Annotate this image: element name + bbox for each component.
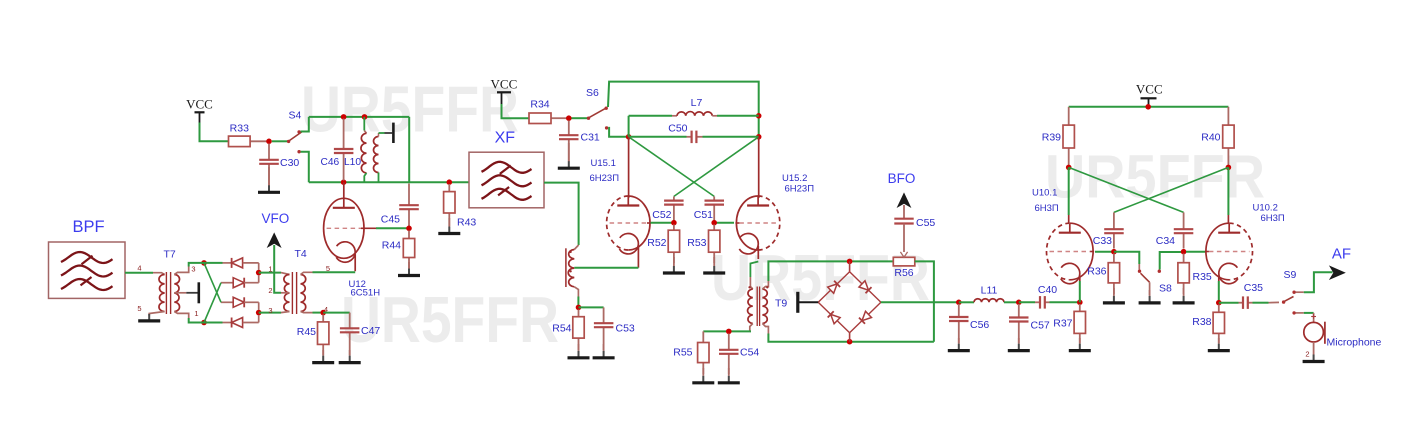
transformer T4 core [292,272,296,314]
label U10.2 type [1261,213,1285,224]
power VCC (right) [1136,82,1163,105]
pin 4 of T4 [324,305,328,314]
wire tank bottom rail [309,181,469,183]
label C46 [321,157,340,168]
svg-text:R54: R54 [552,323,571,335]
diode ring bottom stem [849,333,851,342]
svg-text:U15.1: U15.1 [591,158,616,169]
junction R39/plate U10.1 [1066,165,1072,171]
wire cross-couple R40 to C33 [1114,167,1229,212]
ground C54 [718,368,740,383]
label R44 [382,240,401,252]
resistor R37 [1074,304,1085,343]
output arrow AF [1329,265,1346,280]
label C30 [280,157,299,169]
svg-text:C30: C30 [280,157,299,169]
label R33 [230,123,249,135]
wire XF output down [544,183,579,245]
wire R37 node to U10.1 cathode [1079,281,1081,302]
junction C56/L11 [956,300,962,306]
label U12 type 6C51H [351,288,381,299]
pin 5 of T7 [137,304,141,313]
label R55 [673,347,692,359]
label AF [1332,246,1351,263]
switch S9 [1282,291,1296,315]
wire C34 node to U10.2 grid [1186,251,1205,253]
label C50 [668,123,687,135]
wire R54 node to C53 [579,306,604,308]
watermark UR5FFR middle [711,241,930,314]
capacitor C51 [705,196,725,220]
label L11 [981,285,998,297]
wire quad cross TL to D3 [204,263,221,302]
diode ring D8 (bottom-left edge) [818,302,849,333]
svg-text:C35: C35 [1244,282,1263,294]
label C56 [970,319,989,331]
svg-text:R53: R53 [687,237,706,249]
wire U15.2 cathode to T9 [750,262,758,284]
node diode quad top-left [201,260,207,266]
svg-text:VCC: VCC [1136,82,1163,97]
svg-text:6Н3П: 6Н3П [1261,213,1285,224]
svg-text:2: 2 [268,286,272,295]
label T4 [295,248,307,260]
svg-text:R55: R55 [673,347,692,359]
svg-text:3: 3 [268,306,272,315]
ground R37 [1069,338,1091,351]
label S9 [1284,269,1297,281]
resistor R33 [229,136,267,147]
svg-text:R36: R36 [1087,266,1106,278]
svg-text:BFO: BFO [888,171,916,186]
ground C56 [948,338,970,351]
label XF [495,130,516,147]
svg-text:1: 1 [268,264,272,273]
junction R34/C31/S6 [566,115,572,121]
label R53 [687,237,706,249]
label C53 [616,323,635,335]
svg-text:6Н3П: 6Н3П [1035,203,1059,214]
resistor R38 [1213,305,1224,344]
pin 5 of T4 [326,264,330,273]
junction L7/C50 right node [756,134,762,140]
label R45 [297,326,316,338]
wire U15.1 plate [628,137,630,198]
label VFO [262,211,290,226]
label T7 [164,249,176,261]
resistor R43 [444,184,455,226]
label C57 [1031,320,1050,332]
resistor R36 [1108,254,1119,295]
wire U10.1 grid to C33 node [1095,251,1112,253]
wire tank right vertical [408,117,410,182]
wire VCC3 rail [1069,106,1229,108]
svg-text:C33: C33 [1093,235,1112,247]
svg-text:C52: C52 [652,209,671,221]
label U10.1 type [1035,203,1059,214]
label R43 [457,217,476,229]
svg-text:BPF: BPF [72,218,104,236]
wire S6 lower throw [608,128,626,137]
capacitor C52 [664,196,684,220]
svg-text:C54: C54 [740,347,759,359]
diode D2 (second row) [221,275,259,288]
inductor L7 [629,112,759,137]
resistor R45 [318,315,329,356]
diode ring top stem [849,261,851,271]
svg-text:5: 5 [137,304,141,313]
wire T9 sec top to ring top rail [768,261,893,281]
capacitor C53 [594,307,614,350]
ground C53 [593,344,615,358]
wire C40 right [1050,301,1078,303]
wire S6 upper throw loop [608,82,759,137]
svg-text:XF: XF [495,130,516,147]
pin 1 of T7 [194,309,198,318]
ground C57 [1008,338,1030,351]
ground C31 [558,143,580,168]
wire C50 left [629,136,687,138]
wire cross-couple right node to C52 [674,137,759,197]
junction R40/plate U10.2 [1226,165,1232,171]
junction coil/R54/C53 [576,305,582,311]
svg-text:L10: L10 [344,157,361,168]
ground R45 [312,350,334,363]
junction L7 right end [756,113,762,119]
transformer T4 secondary [301,272,313,312]
wire T9 prim bottom to R55/C54 [703,330,751,332]
node diode quad right-upper (T4 pin1) [256,270,262,276]
svg-text:S9: S9 [1284,269,1297,281]
diode ring D5 (top-left edge) [818,272,849,303]
wire R40 to U10.2 plate [1227,167,1229,224]
label L10 [344,157,361,168]
diode D3 (third row) [221,297,259,310]
wire S9 to AF [1296,272,1333,292]
svg-text:C55: C55 [916,217,935,229]
label R36 [1087,266,1106,278]
wire C50 right [703,136,759,138]
ground R36 [1103,288,1125,303]
svg-text:R37: R37 [1053,318,1072,330]
capacitor C56 [949,304,969,343]
resistor R53 [709,225,720,264]
diode ring D7 (bottom-right edge) [850,302,881,333]
label R39 [1042,132,1061,144]
resistor R52 [668,225,679,264]
wire quad to T4 pin3 [259,312,281,314]
wire VCC2 to R34 [502,104,530,118]
watermark UR5FFR right [1045,143,1265,211]
svg-text:VCC: VCC [491,77,518,92]
tube U15.2 6N23P [735,196,779,259]
input arrow BFO [897,192,912,208]
wire C33 node to S8 [1114,252,1139,264]
junction R33/C30/S4 [266,139,272,145]
tube U10.2 6N3P [1205,223,1253,284]
transformer T7 primary [149,273,164,316]
wire T7 pin3 to quad TL [189,263,204,267]
wire T4 pin5 to U12 cathode [313,271,356,273]
switch S8 [1138,264,1161,295]
chassis ground ring left node [798,292,818,313]
wire pin4 to C47 [323,312,350,314]
svg-text:L11: L11 [981,285,998,297]
svg-text:R43: R43 [457,217,476,229]
microphone [1304,314,1325,344]
label L7 [691,97,703,109]
watermark UR5FFR bottom-left [341,283,559,356]
label Microphone [1327,337,1382,349]
node diode quad right-lower (T4 pin3) [256,310,262,316]
ground C30 [258,167,280,192]
svg-text:U15.2: U15.2 [782,173,807,184]
junction R37/C40/cathode U10.1 [1077,300,1083,306]
transformer T9 primary [748,284,753,332]
ground S8 [1139,290,1161,303]
wire U15.1 grid to C52 node [651,222,672,224]
wire VCC to R33 [200,123,229,142]
capacitor C50 [687,131,703,144]
wire U10.2 cathode down [1218,281,1220,300]
resistor R34 [529,113,567,124]
junction T4 pin4 / R45 / C47 [320,310,326,316]
capacitor C57 [1009,304,1029,343]
label R34 [530,99,549,111]
label R52 [647,237,666,249]
svg-text:R52: R52 [647,237,666,249]
svg-text:C40: C40 [1038,284,1057,296]
junction ring bottom node [847,339,853,345]
wire quad cross BL to D2 [204,283,221,323]
label S4 [289,110,302,122]
pin 2 of T4 [268,286,272,295]
label U12 [349,279,366,290]
label R54 [552,323,571,335]
wire S4 upper throw to tank top rail [301,117,309,132]
ground microphone [1303,342,1325,362]
tube U10.1 6N3P [1047,223,1095,284]
tube U12 6C51H triode [324,182,365,271]
capacitor C30 [259,144,279,186]
transformer T7 secondary [174,267,188,319]
wire cross-couple R39 to C34 [1069,167,1184,212]
capacitor C40 [1035,296,1050,309]
inductor L11 [959,299,1017,303]
svg-text:C56: C56 [970,319,989,331]
filter block BPF [49,242,126,298]
svg-text:R44: R44 [382,240,401,252]
junction L7/C50 left node [626,134,632,140]
label C52 [652,209,671,221]
pin 2 of microphone [1305,350,1309,359]
svg-text:VFO: VFO [262,211,290,226]
svg-text:C53: C53 [616,323,635,335]
capacitor C47 [340,313,360,355]
svg-text:U10.1: U10.1 [1032,188,1057,199]
svg-text:S8: S8 [1159,283,1172,295]
diode D1 (top row) [204,258,259,270]
label R56 [894,267,913,279]
capacitor C46 [334,119,354,181]
label R37 [1053,318,1072,330]
wire U15.2 plate [758,137,760,198]
wire C35 to S9 [1253,301,1280,303]
label C45 [381,214,400,226]
label C35 [1244,282,1263,294]
label C31 [581,132,600,144]
label U15.1 [591,158,616,169]
label C40 [1038,284,1057,296]
label C34 [1156,235,1175,247]
label C54 [740,347,759,359]
capacitor C34 [1174,212,1194,248]
resistor R39 [1063,107,1074,165]
svg-text:R56: R56 [894,267,913,279]
wire T9 sec bottom to ring bottom rail [768,334,934,342]
ground R35 [1173,288,1195,303]
wire tank top rail [309,116,409,118]
wire S4 lower throw to tank bottom rail [301,152,309,183]
label S6 [586,87,599,99]
label R35 [1193,271,1212,283]
label U15.2 [782,173,807,184]
svg-text:6С51Н: 6С51Н [351,288,381,299]
label C51 [694,209,713,221]
wire R56 right to ring right vertical [915,261,934,341]
transformer T9 core [757,287,759,327]
resistor R40 [1223,107,1234,165]
transformer T4 primary [281,273,290,313]
ground R52 [663,257,685,273]
svg-text:C45: C45 [381,214,400,226]
ground R55 [692,368,714,383]
svg-text:L7: L7 [691,97,703,109]
wire ring right node output [881,301,957,303]
svg-text:R38: R38 [1192,316,1211,328]
junction R38/C35/cathode U10.2 [1216,300,1222,306]
capacitor C55 [894,205,913,250]
tube U15.1 6N23P [607,196,651,268]
label C55 [916,217,935,229]
watermark UR5FFR top-left [301,73,519,146]
wire BPF output to T7 [125,272,153,274]
chassis ground at L10 link [379,123,394,143]
label T9 [775,298,787,310]
label BPF [72,218,104,236]
wire S9 to microphone [1296,313,1314,323]
capacitor C54 [719,334,739,375]
svg-text:VCC: VCC [186,97,213,112]
ground T7 pin5 [138,314,160,321]
svg-text:C47: C47 [361,325,380,337]
junction ring top node [847,259,853,265]
svg-text:T9: T9 [775,298,787,310]
label C33 [1093,235,1112,247]
transformer T9 secondary [762,281,768,334]
inductor L10 link winding [374,137,379,183]
svg-text:2: 2 [1305,350,1309,359]
ground R38 [1208,338,1230,351]
resistor R54 [573,310,584,351]
ground R44 [398,262,420,276]
wire S8 to C34 node [1160,252,1184,270]
wire C40 left [1019,301,1035,303]
chassis ground T7 center tap [186,282,199,303]
diode ring D6 (top-right edge) [850,272,881,303]
svg-text:C34: C34 [1156,235,1175,247]
label U15.2 type [785,184,815,195]
power VCC (left) [186,97,213,123]
label C47 [361,325,380,337]
wire coil tap to U15.1 cathode [574,267,638,269]
capacitor C35 [1239,296,1253,309]
inductor L10 primary winding [361,117,367,182]
label S8 [1159,283,1172,295]
capacitor C31 [559,121,579,162]
wire cross-couple left node to C51 [629,137,715,197]
svg-text:AF: AF [1332,246,1351,263]
node diode quad bottom-left [201,320,207,326]
junction C52/R52/grid U15.1 [671,220,677,226]
svg-text:T4: T4 [295,248,307,260]
svg-text:1: 1 [194,309,198,318]
potentiometer R56 [893,250,915,266]
power VCC (middle) [491,77,518,105]
wire VFO to T4 pin2 [274,245,281,293]
svg-text:R35: R35 [1193,271,1212,283]
coupling coil below XF [566,245,579,297]
switch S6 [572,107,609,130]
svg-text:4: 4 [137,263,141,272]
junction C57/C40 [1016,300,1022,306]
junction L10 top [362,114,368,120]
resistor R35 [1178,254,1189,295]
wire R39 to U10.1 plate [1068,167,1070,224]
svg-text:S4: S4 [289,110,302,122]
capacitor C33 [1104,212,1124,248]
svg-text:C46: C46 [321,157,340,168]
resistor R55 [698,331,709,374]
wire coil bottom to R54 node [577,297,579,307]
ground R43 [438,218,460,234]
transformer T7 core [166,272,170,314]
label R38 [1192,316,1211,328]
capacitor C45 [399,184,419,227]
diode D4 (bottom row) [204,315,259,328]
junction C51/R53/grid U15.2 [711,220,717,226]
svg-text:C31: C31 [581,132,600,144]
pin 4 of T7 [137,263,141,272]
label R40 [1201,132,1220,144]
ground C47 [339,350,361,363]
resistor R44 [403,231,414,269]
wire T7 pin1 to quad BL [189,318,204,323]
svg-text:T7: T7 [164,249,176,261]
svg-text:R45: R45 [297,326,316,338]
switch S4 [272,130,303,153]
pin 3 of T7 [191,265,195,274]
svg-text:R39: R39 [1042,132,1061,144]
label U15.1 type [590,173,620,184]
svg-text:C57: C57 [1031,320,1050,332]
svg-text:S6: S6 [586,87,599,99]
wire R38 node to C35 [1219,302,1239,304]
label U10.1 [1032,188,1057,199]
svg-text:C50: C50 [668,123,687,135]
input arrow VFO [267,232,282,248]
pin 3 of T4 [268,306,272,315]
